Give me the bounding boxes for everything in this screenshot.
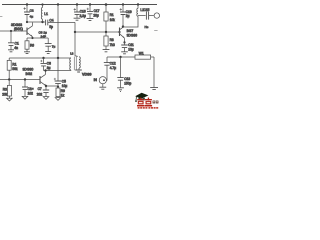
terminal IN circle (99, 77, 106, 90)
svg-text:20k: 20k (2, 92, 8, 96)
capacitor C5 (54, 58, 62, 88)
svg-text:150p: 150p (124, 82, 131, 86)
node emitter BG2 (45, 85, 47, 87)
logo small dark text (153, 101, 159, 104)
logo red characters (132, 90, 162, 110)
svg-text:4.7μ: 4.7μ (110, 66, 116, 70)
svg-text:3DG86: 3DG86 (127, 34, 138, 38)
transistor BG1 (27, 23, 33, 38)
capacitor C4 (46, 20, 75, 26)
svg-text:3,3μ: 3,3μ (80, 14, 86, 18)
svg-text:W1: W1 (139, 52, 144, 56)
svg-text:10μ: 10μ (62, 84, 68, 88)
node y58 dots (42, 57, 44, 59)
node collector BG2 (44, 69, 46, 71)
svg-text:3DG80: 3DG80 (23, 67, 34, 71)
svg-text:C1=: C1= (28, 87, 34, 91)
node base line dots (74, 31, 76, 33)
svg-text:R1: R1 (110, 13, 114, 17)
wire base line y79.5 (0, 79, 40, 81)
node input junction (10, 30, 12, 32)
svg-text:C15: C15 (144, 8, 150, 12)
resistor R8 (103, 32, 110, 52)
wire left edge tick (0, 16, 2, 18)
svg-text:(BG1): (BG1) (14, 27, 23, 31)
capacitor C17 (87, 5, 94, 21)
svg-text:3μ: 3μ (47, 66, 51, 70)
svg-text:C4: C4 (49, 18, 53, 22)
capacitor C8 (40, 58, 46, 71)
svg-text:20μ: 20μ (93, 13, 99, 17)
svg-text:202: 202 (37, 93, 43, 97)
svg-text:R1: R1 (12, 62, 16, 66)
svg-text:10k: 10k (110, 18, 116, 22)
wire VCC top rail (2, 4, 157, 6)
svg-text:C2: C2 (30, 9, 34, 13)
wire base line y32 (75, 31, 120, 33)
resistor R1 (104, 5, 108, 32)
transformer secondary coil (75, 57, 82, 72)
svg-text:C12: C12 (110, 61, 116, 65)
svg-text:C8: C8 (47, 61, 51, 65)
capacitor C19 (120, 5, 126, 27)
node emitter BG7 (123, 41, 125, 43)
svg-text:C5: C5 (62, 79, 66, 83)
svg-text:L1: L1 (44, 12, 48, 16)
svg-text:5p: 5p (49, 25, 53, 29)
svg-text:C13: C13 (124, 77, 130, 81)
capacitor C13 (117, 57, 124, 91)
node rail junction dots (26, 3, 139, 6)
svg-text:L3: L3 (70, 51, 74, 55)
svg-text:R3: R3 (3, 88, 7, 92)
wire VCC drop x58 (57, 5, 59, 59)
capacitor C7 (43, 86, 49, 99)
transistor BG7 (120, 27, 125, 43)
svg-text:2μ: 2μ (126, 14, 130, 18)
svg-text:1k: 1k (61, 93, 65, 97)
svg-text:7μ: 7μ (52, 44, 56, 48)
inductor L1 (41, 5, 42, 23)
capacitor C11 (121, 42, 128, 53)
transformer B primary coil (70, 58, 71, 71)
potentiometer W1 (135, 55, 158, 90)
transformer core (74, 57, 76, 71)
svg-text:102: 102 (28, 91, 34, 95)
logo bottom red row (138, 107, 159, 109)
inductor L2 (123, 5, 138, 28)
svg-text:C19: C19 (126, 10, 132, 14)
svg-text:IN: IN (94, 78, 98, 82)
wire collector line y70.5 (44, 70, 72, 72)
svg-text:Hs: Hs (145, 25, 149, 29)
wire collector line y22 (27, 21, 45, 23)
wire emitter line y86 (46, 85, 58, 87)
wire W1 line y57 (107, 56, 135, 58)
resistor R3 (7, 80, 13, 102)
wire input line left (0, 30, 27, 32)
node C13 junction (119, 56, 121, 58)
svg-text:VD80: VD80 (82, 73, 92, 77)
svg-text:4n: 4n (14, 46, 18, 50)
svg-text:56k: 56k (12, 67, 18, 71)
resistor R9 (55, 88, 61, 100)
capacitor C15 and output terminal (138, 12, 160, 20)
svg-text:BG7: BG7 (127, 29, 134, 33)
logo graduation cap (132, 91, 162, 111)
svg-text:R8: R8 (110, 38, 114, 42)
svg-text:7k3: 7k3 (110, 43, 115, 47)
capacitor C12 (104, 57, 110, 80)
svg-text:BG2: BG2 (26, 72, 33, 76)
resistor R15 (7, 58, 11, 80)
wire small dash mark (154, 30, 157, 32)
svg-text:R6: R6 (30, 43, 34, 47)
capacitor C2 (from rail) (24, 5, 31, 23)
svg-text:10μ: 10μ (128, 48, 134, 52)
capacitor C6 (22, 80, 28, 100)
resistor R6 (emitter BG1) (24, 38, 33, 54)
transistor BG2 (40, 71, 46, 86)
wire supply line y58 (9, 57, 71, 59)
capacitor C3 (33, 38, 52, 53)
capacitor C16 (74, 5, 81, 21)
node collector BG7 (122, 25, 124, 27)
svg-text:14P: 14P (41, 34, 47, 38)
node y79.5 dots (8, 78, 10, 80)
svg-text:C17: C17 (94, 9, 100, 13)
wire feedback vertical x76 (75, 22, 78, 56)
svg-text:C7: C7 (38, 87, 42, 91)
node C5 R9 junction (57, 86, 59, 88)
node y22 dots (26, 21, 28, 23)
svg-text:4μ: 4μ (30, 15, 34, 19)
svg-text:C11: C11 (128, 43, 134, 47)
svg-text:R9: R9 (61, 89, 65, 93)
node emitter BG1 dot (31, 37, 33, 39)
capacitor C1 (8, 31, 14, 52)
